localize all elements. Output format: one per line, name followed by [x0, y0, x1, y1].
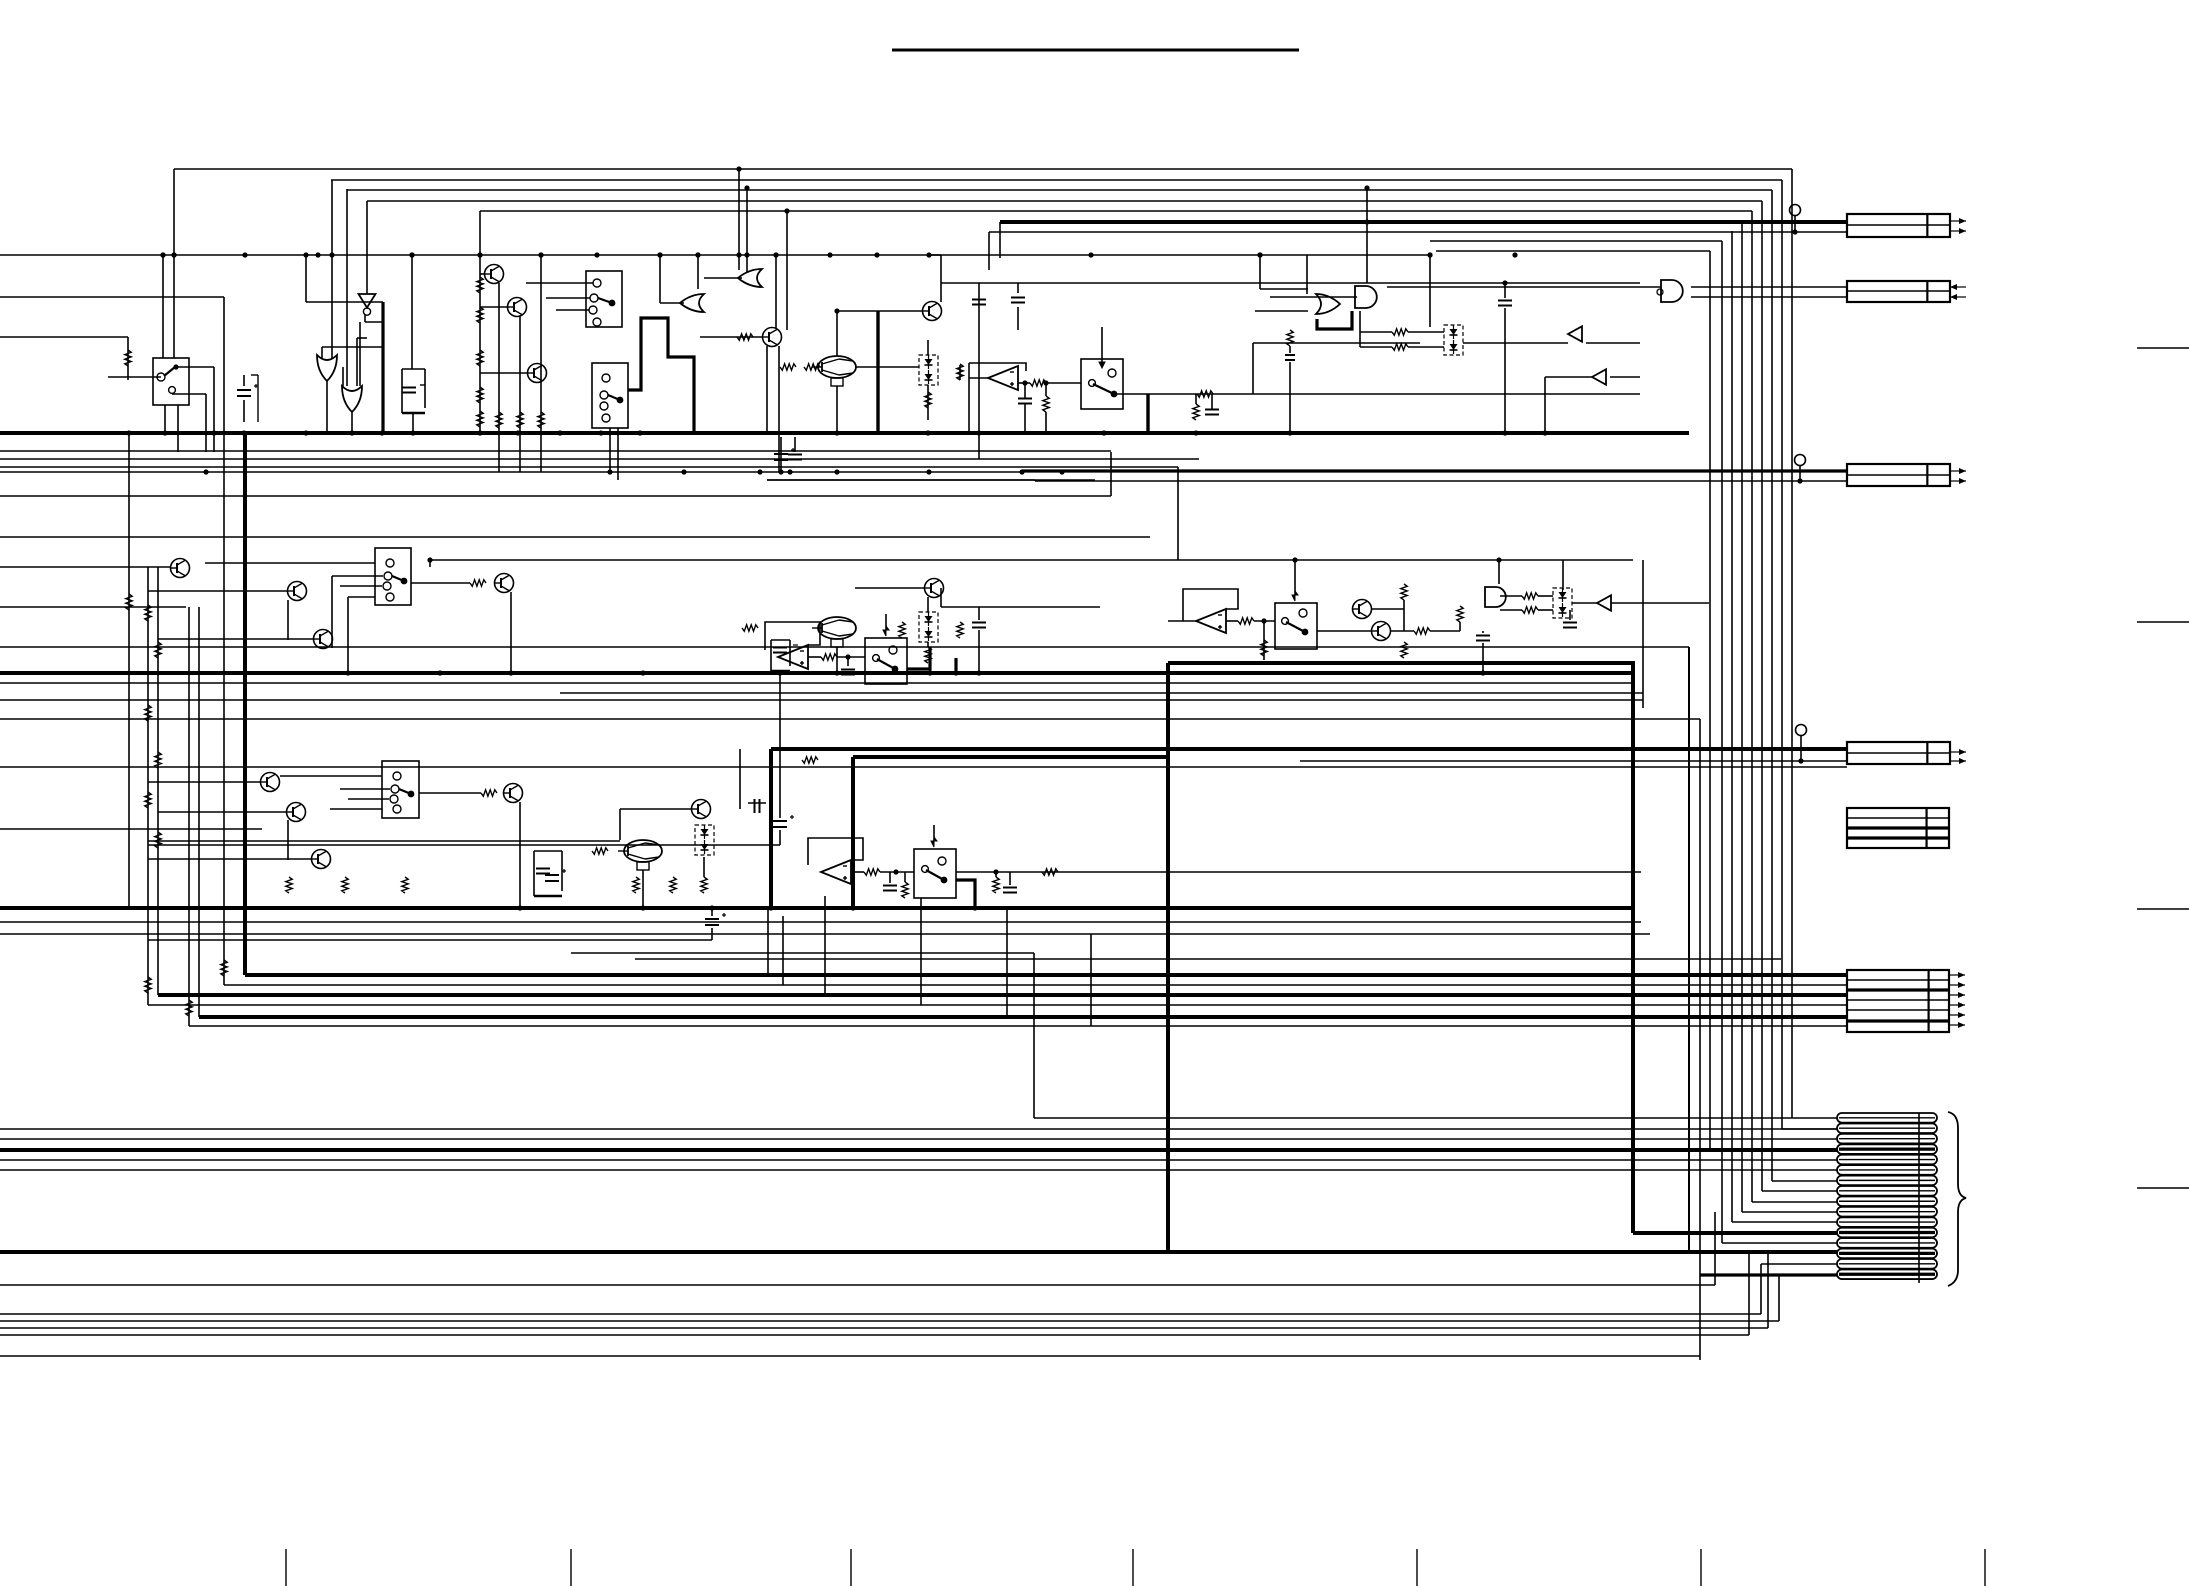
wire — [1114, 393, 1148, 395]
connector J6 — [1847, 970, 1949, 1032]
wire bus — [0, 1159, 1837, 1161]
arrow — [1950, 228, 1966, 234]
pill P1 — [1837, 1113, 1937, 1123]
wire — [546, 297, 590, 299]
junction — [1043, 380, 1048, 385]
cap block frame — [534, 851, 562, 896]
op-amp U13 feedback — [1183, 589, 1238, 614]
wire — [347, 597, 349, 673]
wire — [342, 367, 344, 386]
junction — [834, 308, 839, 313]
wire — [771, 639, 790, 641]
wire — [1545, 376, 1592, 378]
arrow — [1950, 294, 1966, 300]
resistor — [126, 594, 132, 610]
diode pair D3 — [695, 825, 714, 855]
wire bus — [189, 1025, 1847, 1027]
wire — [213, 367, 215, 452]
switch S1 contact — [157, 373, 165, 381]
resistor — [780, 364, 796, 370]
wire — [127, 337, 129, 380]
junction — [1512, 252, 1517, 257]
resistor — [145, 705, 151, 721]
switch S6 contact — [873, 655, 880, 662]
wire thick — [1022, 469, 1847, 472]
junction — [757, 469, 762, 474]
or gate U2 — [317, 355, 337, 381]
wire bus — [0, 450, 1111, 452]
junction — [437, 670, 442, 675]
pill P11 wire — [1839, 1221, 1935, 1223]
wire terminal stem — [1799, 466, 1801, 481]
junction — [1364, 185, 1369, 190]
wire — [1359, 311, 1361, 347]
wire thick — [1633, 1231, 1837, 1235]
junction — [695, 252, 700, 257]
junction — [160, 252, 165, 257]
wire — [780, 437, 782, 470]
pill P11 — [1837, 1217, 1937, 1227]
wire bus — [0, 718, 1700, 720]
wire bus — [0, 682, 1633, 684]
arrow — [1950, 478, 1966, 484]
wire — [1263, 621, 1265, 660]
wire — [526, 282, 593, 284]
capacitor C3 mark — [420, 384, 425, 386]
wire — [1035, 480, 1847, 482]
switch S9 arrow — [931, 837, 937, 847]
dual transistor Q23 — [618, 840, 662, 870]
wire — [778, 346, 780, 472]
wire — [1538, 609, 1553, 611]
wire — [332, 575, 383, 577]
pill P3 — [1837, 1134, 1937, 1144]
wire — [1294, 560, 1296, 595]
capacitor C20 — [755, 799, 760, 813]
transistor Q19 — [261, 773, 280, 792]
junction — [681, 469, 686, 474]
wire — [920, 898, 922, 1005]
capacitor C2 — [402, 388, 416, 393]
switch S8 contact — [390, 795, 398, 803]
wire — [988, 232, 990, 270]
wire — [1500, 595, 1522, 597]
bottom edge tick 2 — [570, 1549, 572, 1586]
wire thick row3 box — [771, 747, 1847, 751]
switch S2 contact — [589, 306, 597, 314]
junction — [477, 430, 482, 435]
capacitor C5 — [788, 455, 802, 460]
wire — [480, 372, 528, 374]
bottom edge tick 6 — [1700, 1549, 1702, 1586]
wire — [1253, 342, 1420, 344]
switch S5 contact — [384, 572, 392, 580]
capacitor C15 — [1476, 636, 1490, 641]
resistor — [1261, 640, 1267, 656]
wire — [851, 871, 864, 873]
wire — [927, 385, 929, 420]
op-amp U16 feedback — [808, 838, 863, 865]
wire — [148, 844, 780, 846]
wire bus — [148, 1004, 1847, 1006]
bottom edge tick 3 — [850, 1549, 852, 1586]
wire — [1371, 608, 1404, 610]
arrow — [1950, 468, 1966, 474]
title underline — [892, 49, 1299, 52]
wire — [940, 255, 942, 302]
brace — [1948, 1112, 1966, 1286]
wire — [429, 560, 431, 567]
switch S8 contact — [393, 805, 401, 813]
wire — [1482, 631, 1484, 633]
wire — [1148, 393, 1640, 395]
and gate U8 — [1355, 286, 1377, 308]
resistor — [993, 877, 999, 893]
junction — [1261, 618, 1266, 623]
wire — [1691, 286, 1848, 288]
wire bus — [0, 1284, 1715, 1286]
wire — [779, 673, 781, 818]
wire — [642, 870, 644, 908]
junction — [773, 252, 778, 257]
pill P16 wire — [1839, 1273, 1935, 1276]
wire — [1260, 288, 1308, 290]
junction — [557, 430, 562, 435]
junction — [893, 869, 898, 874]
resistor — [925, 647, 931, 663]
wire — [767, 908, 769, 975]
wire — [978, 433, 980, 459]
resistor — [864, 869, 880, 875]
junction — [607, 469, 612, 474]
arrow — [1950, 758, 1966, 764]
switch S3 contact — [600, 391, 608, 399]
wire thick bus — [245, 973, 1847, 977]
resistor — [402, 877, 408, 893]
wire thick — [876, 311, 879, 433]
wire — [1252, 343, 1254, 394]
resistor — [1238, 618, 1254, 624]
wire — [904, 872, 906, 882]
wire — [243, 375, 245, 386]
right edge tick 1 — [2137, 347, 2189, 349]
resistor — [1392, 329, 1408, 335]
wire — [1408, 331, 1444, 333]
junction — [171, 252, 176, 257]
transistor Q21 — [312, 850, 331, 869]
wire — [1572, 602, 1597, 604]
wire — [364, 315, 366, 322]
connector J1 — [1847, 214, 1950, 237]
op-amp U6 feedback — [969, 363, 1026, 371]
wire — [411, 255, 413, 369]
wire — [609, 428, 611, 472]
wire — [147, 567, 149, 1005]
dual transistor Q6 — [812, 356, 856, 386]
wire — [995, 872, 997, 877]
wire bus — [0, 699, 1643, 701]
resistor — [155, 752, 161, 768]
pill P8 wire — [1839, 1190, 1935, 1192]
wire — [1046, 382, 1081, 384]
wire — [177, 405, 179, 452]
wire thick — [1700, 1273, 1837, 1276]
capacitor C11 — [773, 648, 787, 653]
junction — [410, 430, 415, 435]
wire — [1182, 614, 1184, 621]
wire — [1366, 188, 1368, 283]
wire bus — [0, 1138, 1837, 1140]
wire thick bus — [0, 906, 1632, 910]
junction — [241, 430, 246, 435]
inverter U1 — [359, 294, 376, 315]
wire — [172, 393, 206, 395]
connector J4 — [1847, 742, 1950, 764]
junction — [736, 252, 741, 257]
wire — [164, 405, 166, 433]
wire bundle — [1688, 647, 1690, 1251]
junction — [972, 905, 977, 910]
junction — [1193, 430, 1198, 435]
transistor Q13 — [495, 574, 514, 593]
junction — [1502, 430, 1507, 435]
resistor — [145, 792, 151, 808]
wire — [1691, 296, 1848, 298]
wire — [927, 642, 929, 647]
wire — [775, 255, 777, 328]
wire — [1033, 953, 1035, 1118]
junction — [925, 430, 930, 435]
arrow — [1949, 972, 1965, 978]
wire — [556, 309, 589, 311]
junction — [1257, 252, 1262, 257]
wire — [1360, 331, 1392, 333]
arrow — [1949, 992, 1965, 998]
wire — [1289, 362, 1291, 433]
junction — [1292, 557, 1297, 562]
pill P12 — [1837, 1228, 1937, 1238]
wire — [794, 437, 796, 452]
and gate U11 bubble — [1657, 289, 1663, 295]
wire — [1034, 1117, 1837, 1119]
wire — [1035, 559, 1633, 561]
junction — [744, 185, 749, 190]
wire — [534, 850, 562, 852]
wire bus — [0, 1327, 1768, 1329]
wire — [1761, 1263, 1837, 1265]
wire — [941, 606, 1100, 608]
wire — [1009, 872, 1011, 885]
wire — [1226, 620, 1238, 622]
junction — [1427, 252, 1432, 257]
wire — [929, 254, 941, 256]
mosfet pair Q18 — [1553, 588, 1572, 618]
wire — [1611, 602, 1709, 604]
wire — [1504, 308, 1506, 433]
wire — [128, 433, 130, 908]
junction — [1022, 380, 1027, 385]
switch S4 contact — [1108, 369, 1116, 377]
wire bus — [0, 336, 128, 338]
wire — [1482, 643, 1484, 673]
wire — [1211, 394, 1213, 409]
wire fan — [1436, 250, 1710, 252]
switch S6 contact — [889, 646, 897, 654]
transistor Q4 — [763, 328, 782, 347]
wire bus — [0, 495, 1111, 497]
wire — [1752, 1201, 1837, 1203]
transistor Q10 — [171, 559, 190, 578]
junction — [538, 252, 543, 257]
switch S5 contact — [386, 593, 394, 601]
resistor — [1457, 606, 1463, 622]
arrow — [1950, 284, 1966, 290]
resistor — [902, 882, 908, 898]
switch S7 contact — [1282, 618, 1289, 625]
pill P14 wire — [1839, 1252, 1935, 1255]
wire thick bus — [0, 1148, 1837, 1152]
wire thick — [907, 647, 930, 669]
right edge tick 3 — [2137, 908, 2189, 910]
wire — [1742, 1211, 1837, 1213]
transistor Q22 — [504, 784, 523, 803]
wire fan — [347, 189, 1772, 191]
wire thick bus — [0, 431, 1689, 435]
wire — [176, 366, 214, 368]
wire — [1504, 283, 1506, 298]
resistor — [1287, 330, 1293, 346]
wire — [746, 188, 748, 272]
switch S6 — [865, 638, 907, 684]
wire — [968, 378, 970, 433]
terminal circle — [1796, 725, 1807, 736]
resistor — [477, 277, 483, 293]
junction — [427, 557, 432, 562]
wire — [162, 255, 164, 358]
wire — [1463, 342, 1568, 344]
junction — [784, 208, 789, 213]
wire — [148, 781, 261, 783]
wire — [357, 337, 367, 339]
junction — [1019, 469, 1024, 474]
wire — [1254, 620, 1275, 622]
wire bus — [560, 692, 1643, 694]
wire — [158, 638, 314, 640]
resistor — [145, 605, 151, 621]
pill P9 wire — [1839, 1200, 1935, 1202]
wire — [348, 798, 389, 800]
wire — [660, 302, 684, 304]
connector J2 — [1847, 281, 1950, 302]
wire fan — [480, 210, 1752, 212]
junction — [508, 670, 513, 675]
junction — [1059, 469, 1064, 474]
pill P6 wire — [1839, 1169, 1935, 1171]
junction — [1088, 252, 1093, 257]
right edge tick 4 — [2137, 1187, 2189, 1189]
resistor — [477, 307, 483, 323]
wire — [330, 808, 382, 810]
resistor — [1193, 404, 1199, 420]
or gate U5 — [738, 269, 762, 287]
junction — [850, 905, 855, 910]
wire — [855, 587, 925, 589]
wire — [331, 180, 333, 358]
wire — [1045, 412, 1047, 433]
wire — [697, 255, 699, 289]
switch S9 — [914, 849, 956, 898]
pill divider — [1918, 1113, 1920, 1283]
resistor — [481, 790, 497, 796]
wire thick bus — [158, 993, 1847, 997]
wire — [1270, 296, 1357, 298]
wire — [498, 283, 500, 472]
junction — [976, 430, 981, 435]
wire — [1300, 760, 1847, 762]
wire — [1360, 346, 1392, 348]
wire — [1430, 630, 1460, 632]
op-amp U13 — [1196, 609, 1226, 633]
wire thick bus — [199, 1015, 1847, 1019]
resistor — [477, 387, 483, 403]
junction — [162, 430, 167, 435]
switch S4 — [1081, 359, 1123, 409]
or gate U3 — [342, 386, 362, 412]
wire — [148, 590, 288, 592]
switch S8 — [382, 761, 419, 818]
wire — [1017, 283, 1019, 293]
switch S3 contact — [602, 414, 610, 422]
wire bus — [0, 566, 171, 568]
switch S1 — [153, 358, 189, 405]
wire — [412, 413, 414, 433]
junction — [744, 252, 749, 257]
capacitor C21 — [883, 886, 897, 891]
switch S3 contact — [602, 374, 610, 382]
junction — [773, 252, 778, 257]
wire — [739, 749, 741, 809]
junction — [736, 166, 741, 171]
wire — [1289, 346, 1291, 353]
transistor Q11 — [288, 582, 307, 601]
capacitor C9 — [1285, 355, 1295, 360]
junction — [211, 430, 216, 435]
junction — [834, 430, 839, 435]
wire — [1387, 286, 1663, 288]
junction — [303, 430, 308, 435]
capacitor C23 — [705, 913, 726, 925]
switch S7 arrow — [1292, 591, 1298, 601]
wire — [969, 377, 988, 379]
capacitor C19 — [545, 869, 566, 881]
wire thick — [1317, 311, 1352, 329]
wire — [1090, 934, 1092, 1026]
wire thick — [628, 318, 694, 433]
wire — [767, 479, 1095, 481]
transistor Q17 — [1372, 622, 1391, 641]
wire — [659, 255, 661, 303]
junction — [993, 869, 998, 874]
wire — [346, 189, 348, 386]
resistor — [125, 350, 131, 366]
op-amp U6 — [988, 366, 1018, 390]
mosfet pair Q8 — [1444, 325, 1463, 355]
junction — [303, 252, 308, 257]
wire bundle — [1791, 169, 1793, 1118]
resistor — [1522, 607, 1538, 613]
arrow — [1949, 1002, 1965, 1008]
switch S7 lever — [1286, 622, 1308, 635]
